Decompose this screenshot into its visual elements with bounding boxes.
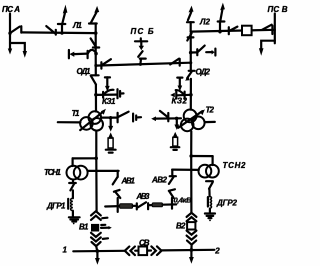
arrow right of V1 body bbox=[101, 227, 109, 229]
wire to DGR2 coil bbox=[208, 189, 210, 197]
breaker V1 chevron down 2 bbox=[91, 237, 101, 241]
contact tick OD2 bbox=[189, 70, 195, 72]
contact tick AV2 bbox=[170, 175, 176, 177]
contact tick L1 bbox=[55, 30, 57, 35]
breaker AV2 wire bottom bbox=[171, 198, 173, 209]
reactor DGR1 coil bbox=[71, 198, 73, 210]
breaker AV1 blade lower bbox=[115, 192, 120, 198]
breaker V1 chevron down 3 with stem bbox=[92, 242, 101, 246]
arrowhead T2 feeder end bbox=[151, 116, 156, 121]
terminal bar T1 feeder inner bbox=[135, 116, 137, 120]
wire bus1 segment to OD1 bbox=[95, 54, 97, 76]
opening-switch blade OD2 bbox=[187, 71, 192, 78]
terminal dash T1 feeder bbox=[138, 116, 141, 118]
contact tick right feeder bbox=[196, 49, 198, 55]
short-circuiter blade KZ1 bbox=[104, 90, 114, 95]
wire tie line between buses bbox=[96, 63, 191, 66]
transformer T1 right winding bbox=[90, 118, 103, 131]
opening-switch blade OD1 bbox=[91, 76, 96, 85]
contact tick T1 feeder bbox=[116, 113, 118, 123]
wire PS B to tie line bbox=[139, 59, 142, 65]
transformer TSN2 right winding bbox=[206, 165, 219, 178]
dash right of V1 body bbox=[101, 224, 105, 226]
transformer T2 right winding bbox=[192, 117, 205, 130]
transformer TSN1 right winding bbox=[74, 166, 88, 180]
arrowhead up-branch L2 bbox=[220, 3, 225, 11]
disconnector blade L2 left bbox=[229, 27, 237, 31]
transformer T1 top winding bbox=[89, 111, 102, 124]
wire arrester tap T2 bbox=[176, 120, 178, 125]
wire bus2 below T2 bbox=[190, 131, 192, 156]
arrester F2 ground bar bbox=[171, 146, 180, 148]
contact tick AV2 lower bbox=[169, 189, 175, 191]
arrester F1 ground dash bbox=[109, 152, 113, 154]
disconnector blade on PS A line bbox=[10, 27, 19, 33]
contact tick bus2 top bbox=[187, 21, 194, 23]
node KZ1 junction bbox=[94, 93, 98, 97]
terminal bar left feeder bbox=[68, 50, 70, 58]
disconnector blade PS B bbox=[138, 51, 142, 57]
disconnector blade tie line right bbox=[170, 59, 179, 65]
wire T1 tertiary stub bbox=[58, 121, 81, 123]
arrowhead OLTC T2 bbox=[200, 109, 205, 115]
wire bus2 segment bbox=[190, 34, 192, 71]
svg-text:Л1: Л1 bbox=[72, 21, 83, 30]
transformer T2 top winding bbox=[184, 110, 197, 123]
contact tick bus1 top bbox=[89, 22, 97, 24]
wire TSN1 neutral down bbox=[72, 180, 74, 184]
svg-text:ПС А: ПС А bbox=[2, 5, 20, 14]
arrowhead outgoing feeder 2 bbox=[190, 250, 192, 258]
svg-text:ТСН2: ТСН2 bbox=[223, 161, 247, 170]
wire bus1 upper segment bbox=[95, 24, 97, 34]
wire DGR1 to ground bbox=[72, 211, 74, 217]
disconnector blade up-branch bbox=[62, 13, 65, 24]
node TSN1 tap junction bbox=[94, 157, 98, 161]
svg-text:ОД1: ОД1 bbox=[77, 67, 92, 76]
switch blade DGR1 bbox=[70, 184, 74, 191]
switch blade DGR2 bbox=[209, 182, 213, 189]
wire bus1 below T1 bbox=[95, 131, 97, 159]
svg-text:Т1: Т1 bbox=[72, 109, 81, 118]
disconnector blade left feeder bbox=[88, 50, 96, 53]
wire KZ2 arrow shaft bbox=[179, 78, 181, 86]
wire TSN2 tap bbox=[191, 155, 212, 157]
contact tick tie line left bbox=[100, 62, 102, 68]
wire line L2 horizontal bbox=[191, 30, 275, 32]
arrowhead up-branch bbox=[63, 5, 68, 14]
svg-text:ОД2: ОД2 bbox=[196, 68, 211, 77]
wire TSN1 secondary to AV1 bbox=[88, 170, 119, 172]
contact tick L2 right bbox=[271, 26, 273, 34]
wire TSN2 drop bbox=[212, 156, 214, 165]
arrowhead KZ2 down bbox=[178, 86, 183, 92]
breaker V1 chevron up 2 bbox=[91, 216, 101, 220]
wire 0.4kV bus segment bbox=[148, 204, 152, 206]
contact tick KZ1 bbox=[102, 92, 104, 98]
transformer T2 left winding bbox=[181, 119, 194, 132]
wire up-branch riser bbox=[61, 24, 63, 33]
svg-text:В1: В1 bbox=[79, 222, 89, 231]
transformer TSN1 left winding bbox=[67, 166, 81, 180]
transformer TSN2 left winding bbox=[199, 165, 212, 178]
disconnector blade T2 feeder bbox=[160, 111, 168, 117]
node bus2 bottom junction bbox=[190, 248, 194, 252]
breaker V1 body square bbox=[91, 224, 99, 232]
arrowhead bus1 top bbox=[94, 6, 99, 13]
reactor DGR2 core bar bbox=[207, 197, 209, 206]
breaker AV1 blade upper bbox=[113, 177, 118, 184]
breaker SV chevron right 1 bbox=[151, 246, 156, 255]
wire bottom bus under SV bbox=[135, 250, 138, 252]
svg-text:ПС Б: ПС Б bbox=[131, 27, 154, 36]
terminal bar right feeder bbox=[214, 49, 216, 56]
reactor DGR2 coil bbox=[210, 196, 212, 208]
wire KZ1 arrow shaft bbox=[106, 77, 108, 86]
contact tick PS B bbox=[140, 57, 146, 59]
disconnector blade bus2 top bbox=[188, 12, 191, 20]
contact tick PS A line bbox=[20, 26, 22, 32]
contact tick KZ1 arrow top bbox=[105, 76, 110, 78]
ground DGR2 bbox=[205, 212, 215, 214]
disconnector blade up-branch L2 bbox=[220, 10, 222, 22]
svg-text:ДГР1: ДГР1 bbox=[46, 202, 66, 211]
wire TSN1 drop bbox=[71, 158, 73, 166]
wire bus1 segment below OD1 bbox=[95, 85, 97, 112]
breaker AV2 blade upper bbox=[169, 176, 174, 184]
wire DGR2 to ground bbox=[209, 209, 211, 213]
node bus1 feeder junction bbox=[94, 52, 98, 56]
OLTC arrow T2 bbox=[178, 111, 202, 128]
wire bus2 upper segment bbox=[190, 22, 192, 31]
contact tick DGR1 switch bbox=[69, 182, 76, 184]
disconnector blade bus1 top bbox=[91, 12, 97, 23]
OLTC arrow T1 bbox=[80, 112, 103, 131]
breaker V2 chevron up 1 bbox=[187, 213, 197, 217]
arrowhead PS B down bbox=[139, 46, 144, 51]
svg-text:ТСН1: ТСН1 bbox=[44, 168, 62, 177]
breaker square on L2 bbox=[242, 26, 252, 36]
breaker V2 chevron down 2 bbox=[187, 236, 197, 240]
wire PS A vertical feeder bbox=[9, 14, 11, 51]
contact tick OD1 bbox=[91, 74, 99, 76]
dash right of V1 upper bbox=[102, 217, 107, 220]
breaker V1 chevron down 1 bbox=[91, 233, 101, 237]
node bus1 / L1 junction bbox=[94, 31, 98, 35]
disconnector blade right feeder bbox=[198, 46, 205, 52]
breaker V2 chevron up 2 bbox=[187, 217, 197, 221]
node tie line left junction bbox=[94, 64, 97, 67]
short-circuiter blade KZ2 bbox=[176, 90, 184, 95]
wire bottom bus section 2 bbox=[162, 249, 215, 252]
contact tick AV3 right bbox=[147, 203, 149, 209]
wire PS B arrow shaft bbox=[140, 41, 142, 46]
breaker SV chevron left 2 bbox=[130, 247, 135, 256]
wire arrester tap T1 bbox=[110, 120, 112, 127]
terminal dash KZ1 bbox=[121, 92, 123, 94]
terminal bar KZ1 outer bbox=[116, 89, 118, 98]
node bus2 feeder junction bbox=[189, 51, 193, 55]
node bus1 bottom junction bbox=[95, 249, 99, 253]
arrester F2 ground dash bbox=[173, 149, 176, 151]
disconnector blade L2 right bbox=[262, 25, 272, 30]
contact tick bus2 mid bbox=[188, 36, 194, 38]
contact tick KZ2 bbox=[184, 92, 186, 99]
svg-text:Л2: Л2 bbox=[199, 18, 211, 27]
contact tick KZ2 arrow top bbox=[177, 76, 182, 78]
arrowhead PS A feeder down bbox=[8, 49, 12, 55]
wire PS V branch bbox=[261, 41, 275, 50]
svg-text:0,4кВ: 0,4кВ bbox=[174, 195, 193, 204]
transformer T1 left winding bbox=[80, 117, 93, 130]
arrester F1 ground bar bbox=[106, 149, 116, 151]
ground DGR1 bbox=[69, 216, 80, 218]
arrowhead PS A branch down bbox=[23, 51, 27, 58]
wire T2 tertiary stub bbox=[205, 121, 215, 123]
contact tick AV3 left bbox=[136, 203, 138, 209]
arrowhead left feeder bbox=[69, 52, 74, 57]
wire to DGR1 coil bbox=[72, 190, 74, 198]
svg-text:В2: В2 bbox=[176, 222, 186, 231]
breaker V1 chevron up 1 bbox=[91, 211, 101, 215]
terminal bar T1 feeder outer bbox=[132, 114, 134, 122]
arrowhead KZ1 down bbox=[105, 86, 110, 92]
wire 0.4kV bus segment bbox=[133, 205, 137, 207]
contact tick up-branch bbox=[58, 23, 65, 25]
arrester F2 arrowhead up bbox=[173, 132, 179, 138]
breaker SV chevron right 2 bbox=[157, 246, 162, 255]
wire PS A branch to arrow bbox=[10, 43, 25, 52]
wire bus2 segment below OD2 bbox=[190, 79, 192, 110]
contact tick AV1 bbox=[114, 190, 120, 192]
arrester F1 arrowhead up bbox=[108, 132, 114, 138]
contact tick DGR2 switch bbox=[206, 180, 213, 182]
node tie line center junction bbox=[139, 63, 142, 66]
terminal bar KZ1 inner bbox=[119, 91, 121, 97]
breaker AV2 blade lower bbox=[169, 192, 173, 198]
switch blade AV3 bbox=[138, 202, 146, 207]
node tie line right junction bbox=[189, 61, 192, 64]
arrowhead OD2 blade tip bbox=[185, 76, 190, 80]
wire TSN1 tap bbox=[73, 157, 97, 159]
contact tick L2 left bbox=[228, 27, 230, 34]
wire T2 left feeder bbox=[156, 117, 181, 119]
disconnector blade bus2 mid bbox=[187, 33, 191, 40]
wire bus1 segment bbox=[95, 33, 97, 54]
svg-text:КЗ2: КЗ2 bbox=[172, 97, 188, 106]
svg-text:2: 2 bbox=[214, 246, 220, 255]
svg-text:ДГР2: ДГР2 bbox=[216, 199, 238, 208]
breaker AV1 wire bottom bbox=[117, 198, 119, 212]
svg-text:Т2: Т2 bbox=[206, 106, 215, 115]
breaker V2 body square bbox=[187, 222, 195, 229]
node T1 feeder junction bbox=[109, 116, 113, 120]
arrester F2 body bbox=[173, 137, 178, 146]
node junction up-branch on L1 bbox=[60, 31, 63, 34]
breaker V2 chevron down 3 with stem bbox=[187, 241, 196, 245]
terminal bar PS B bbox=[135, 40, 147, 42]
svg-text:ПС В: ПС В bbox=[268, 5, 288, 14]
arrowhead PS V branch down bbox=[259, 48, 264, 56]
node KZ2 junction bbox=[189, 93, 193, 97]
dash right of V1 lower bbox=[103, 237, 108, 240]
wire right feeder outer bbox=[206, 51, 211, 53]
svg-text:1: 1 bbox=[63, 245, 68, 254]
breaker V2 chevron down 1 bbox=[187, 231, 197, 235]
wire up-branch riser L2 bbox=[219, 22, 221, 32]
fuse F2 on 0.4kV bus bbox=[152, 203, 162, 207]
wire 0.4kV bus right tail bbox=[163, 203, 177, 206]
contact tick bus1 bbox=[93, 46, 99, 48]
svg-text:АВ3: АВ3 bbox=[136, 192, 151, 201]
node TSN2 tap junction bbox=[189, 154, 193, 158]
terminal stub PS B bbox=[140, 38, 142, 41]
svg-text:АВ1: АВ1 bbox=[121, 177, 136, 186]
disconnector blade on L1 bbox=[46, 26, 55, 33]
terminal bar KZ2 bbox=[175, 92, 177, 99]
node junction on PS A feeder bbox=[8, 32, 11, 35]
contact tick tie line right bbox=[179, 59, 181, 66]
svg-text:КЗ1: КЗ1 bbox=[102, 97, 116, 106]
wire right feeder bbox=[191, 51, 198, 53]
contact tick left feeder bbox=[86, 51, 88, 58]
arrowhead KZ2 end bbox=[170, 93, 175, 98]
wire 0.4kV bus left tail bbox=[105, 205, 119, 208]
arrowhead outgoing feeder 1 bbox=[96, 251, 98, 259]
disconnector blade T1 feeder bbox=[118, 112, 129, 117]
wire KZ2 bbox=[178, 94, 191, 97]
arrowhead arrester tap T2 down bbox=[174, 125, 179, 130]
wire left feeder bbox=[74, 52, 87, 55]
arrowhead arrester tap T1 down bbox=[108, 126, 113, 132]
svg-text:АВ2: АВ2 bbox=[151, 176, 168, 185]
node T2 feeder junction bbox=[175, 117, 179, 121]
disconnector blade bus1 bbox=[91, 38, 96, 46]
wire line L1 horizontal bbox=[22, 31, 96, 34]
fuse F1 on 0.4kV bus bbox=[120, 204, 133, 209]
wire bottom bus section 1 bbox=[73, 250, 124, 253]
contact tick T2 feeder bbox=[167, 113, 169, 121]
wire KZ1 bbox=[96, 93, 117, 96]
disconnector blade tie line left bbox=[102, 59, 111, 65]
wire TSN2 secondary to AV2 bbox=[172, 169, 199, 171]
node junction up-branch on L2 bbox=[218, 30, 221, 33]
arrowhead right feeder bbox=[212, 50, 215, 55]
wire bus2 lower segment bbox=[190, 156, 192, 213]
contact tick up-branch L2 bbox=[218, 20, 225, 22]
arrowhead bus2 top bbox=[189, 6, 194, 13]
wire PS V vertical bbox=[274, 14, 276, 44]
breaker AV1 wire top bbox=[117, 171, 119, 177]
breaker AV2 wire top bbox=[171, 170, 173, 177]
arrowhead OLTC T1 bbox=[101, 109, 106, 115]
arrester F1 body bbox=[108, 138, 113, 148]
wire bus1 lower segment bbox=[95, 158, 97, 211]
wire T1 right feeder bbox=[102, 116, 117, 118]
breaker SV body square bbox=[139, 247, 148, 256]
breaker SV chevron left 1 bbox=[125, 247, 130, 256]
reactor DGR1 core bar bbox=[67, 199, 69, 209]
